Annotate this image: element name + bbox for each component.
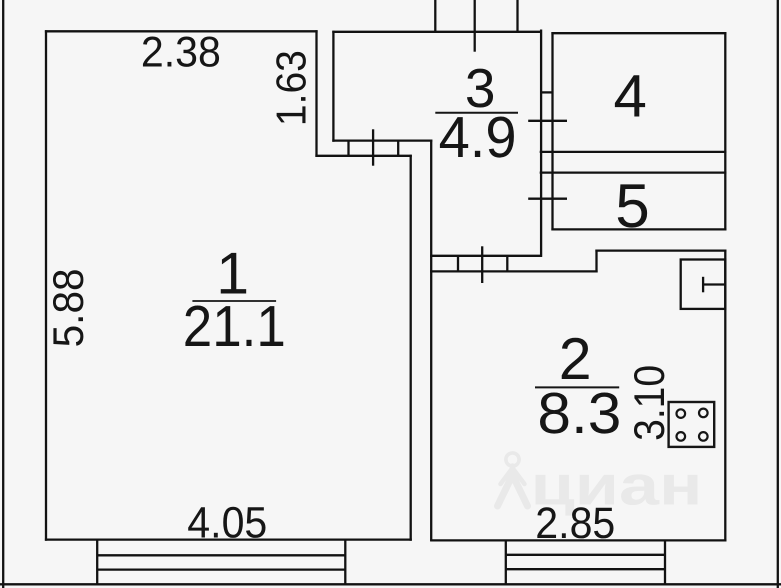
frame left border <box>2 0 4 588</box>
balcony left side b <box>344 540 346 585</box>
room 1 top wall <box>45 30 318 32</box>
room 2 left wall <box>430 140 432 541</box>
room 1 left wall <box>45 30 47 541</box>
room 1 step wall <box>315 155 411 157</box>
rooms 4-5 left wall <box>551 32 553 230</box>
balcony left rail 2 <box>97 568 345 570</box>
svg-text:1.63: 1.63 <box>268 50 315 126</box>
window 3-5 crossing <box>528 198 567 200</box>
svg-text:21.1: 21.1 <box>183 294 286 359</box>
watermark logo pin <box>498 453 528 506</box>
room 3 right wall <box>540 30 542 257</box>
shaft tick <box>541 91 553 93</box>
window 3-2 tick a <box>457 256 459 272</box>
window 3-2 crossing <box>481 246 483 283</box>
balcony right side a <box>505 540 507 584</box>
frame bottom border <box>0 583 781 585</box>
balcony left side a <box>96 540 98 585</box>
room 4 top wall <box>551 32 726 34</box>
room 3 top wall <box>332 31 542 33</box>
room 5 bottom wall <box>551 228 726 230</box>
room 3 fraction line <box>435 112 518 114</box>
room 3 left wall <box>332 31 334 142</box>
top loggia divider c <box>516 0 518 33</box>
room 1 right wall upper <box>315 30 317 157</box>
room 5 top wall <box>540 171 727 173</box>
balcony right rail 2 <box>506 568 665 570</box>
svg-text:5.88: 5.88 <box>45 268 93 347</box>
window 1-3 tick b <box>397 141 399 156</box>
room 1 fraction line <box>192 300 276 302</box>
window 1-3 tick a <box>347 141 349 156</box>
svg-text:8.3: 8.3 <box>537 381 621 446</box>
room 2 fraction line <box>535 386 619 388</box>
balcony left rail 1 <box>97 554 345 556</box>
room 2 bottom wall <box>430 539 726 541</box>
balcony right rail 1 <box>506 554 665 556</box>
room 3 bottom wall <box>430 255 542 257</box>
top loggia divider b / window crossing <box>474 0 476 52</box>
frame right border <box>777 0 779 588</box>
svg-text:4.9: 4.9 <box>439 105 517 170</box>
window 3-2 tick b <box>506 256 508 272</box>
room 1 right wall lower <box>410 155 412 541</box>
svg-text:3.10: 3.10 <box>626 365 674 441</box>
svg-text:2.85: 2.85 <box>535 499 615 548</box>
window 3-4 crossing <box>528 120 567 122</box>
room 2 top wall left <box>430 270 597 272</box>
room 2 step vertical <box>595 250 597 273</box>
vent inner horizontal <box>703 283 725 285</box>
balcony right side b <box>664 540 666 584</box>
window 1-3 crossing <box>372 129 374 165</box>
vent inner tick <box>702 277 704 293</box>
room 4 bottom wall <box>540 151 727 153</box>
room 1 bottom wall <box>45 538 412 540</box>
room 3 lower-left wall <box>332 139 432 141</box>
svg-text:5: 5 <box>615 172 649 241</box>
vent box <box>681 260 726 309</box>
svg-text:4: 4 <box>614 63 647 130</box>
rooms 4-5 right wall <box>724 32 726 230</box>
svg-text:2.38: 2.38 <box>141 29 221 77</box>
room 2 right wall <box>724 250 726 542</box>
stove <box>669 402 715 447</box>
svg-text:4.05: 4.05 <box>187 499 267 548</box>
room 2 top wall right <box>595 249 726 251</box>
top loggia divider a <box>434 0 436 33</box>
